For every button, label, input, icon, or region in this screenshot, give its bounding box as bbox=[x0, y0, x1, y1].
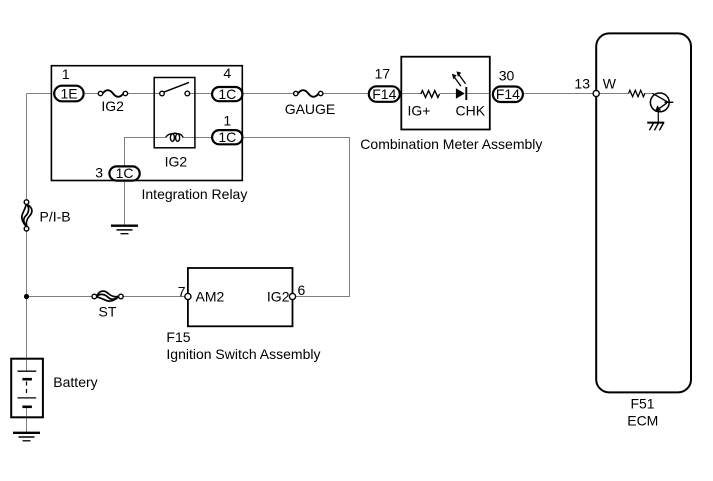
svg-text:6: 6 bbox=[298, 282, 306, 298]
svg-text:17: 17 bbox=[375, 66, 391, 82]
svg-text:AM2: AM2 bbox=[196, 288, 225, 304]
svg-text:F14: F14 bbox=[496, 86, 520, 102]
svg-text:IG2: IG2 bbox=[165, 154, 188, 170]
svg-text:CHK: CHK bbox=[456, 103, 486, 119]
svg-text:4: 4 bbox=[223, 65, 231, 81]
svg-text:1E: 1E bbox=[60, 86, 77, 102]
svg-text:F15: F15 bbox=[166, 329, 190, 345]
svg-text:P/I-B: P/I-B bbox=[40, 208, 71, 224]
svg-text:ST: ST bbox=[99, 304, 117, 320]
svg-text:IG2: IG2 bbox=[101, 98, 124, 114]
svg-text:1: 1 bbox=[62, 66, 70, 82]
svg-text:1C: 1C bbox=[218, 129, 236, 145]
svg-text:1: 1 bbox=[223, 113, 231, 129]
svg-text:7: 7 bbox=[178, 283, 186, 299]
svg-text:F14: F14 bbox=[372, 86, 396, 102]
svg-text:GAUGE: GAUGE bbox=[285, 101, 336, 117]
svg-text:1C: 1C bbox=[218, 86, 236, 102]
svg-text:Battery: Battery bbox=[53, 374, 97, 390]
svg-text:W: W bbox=[603, 75, 617, 91]
svg-text:30: 30 bbox=[499, 67, 515, 83]
svg-text:F51: F51 bbox=[630, 395, 654, 411]
svg-text:IG+: IG+ bbox=[408, 103, 431, 119]
svg-text:IG2: IG2 bbox=[267, 288, 290, 304]
svg-text:3: 3 bbox=[95, 164, 103, 180]
svg-text:Ignition Switch Assembly: Ignition Switch Assembly bbox=[166, 346, 320, 362]
svg-text:1C: 1C bbox=[116, 165, 134, 181]
svg-text:Integration Relay: Integration Relay bbox=[142, 186, 248, 202]
svg-text:Combination Meter Assembly: Combination Meter Assembly bbox=[360, 136, 542, 152]
svg-text:13: 13 bbox=[574, 75, 590, 91]
svg-text:ECM: ECM bbox=[627, 413, 658, 429]
